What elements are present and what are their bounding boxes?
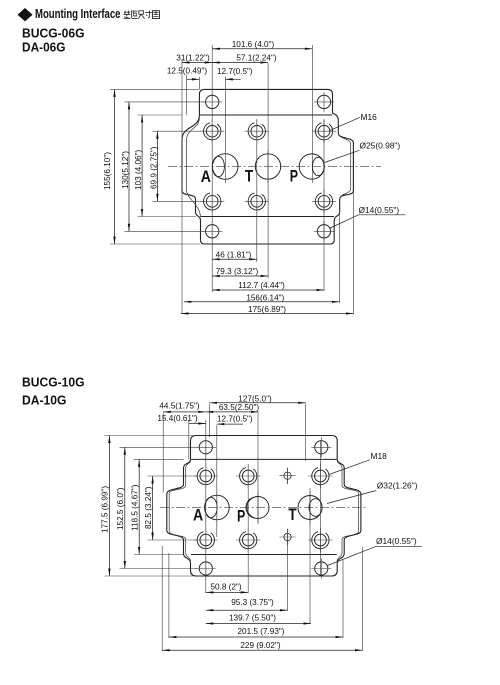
dim2 12.7 line xyxy=(217,423,243,425)
plate2 body bottom edge xyxy=(191,554,337,556)
plate1 port letter T xyxy=(245,167,254,186)
plate2 pilot cross top xyxy=(279,468,295,484)
dim1 ext y89.4 xyxy=(110,88,199,90)
plate1 bolt hole bottom-right xyxy=(314,221,334,241)
dim1 31 text xyxy=(176,54,210,63)
plate1 M16 hole row4 left xyxy=(200,189,224,213)
dim2 127 line xyxy=(210,402,306,404)
plate1 port P circle xyxy=(299,151,324,184)
plate1 bolt hole bottom-left xyxy=(202,221,222,241)
plate1 port T circle xyxy=(255,151,280,184)
dim2 201.5 line xyxy=(169,636,343,638)
plate2 bolt hole bottom-left xyxy=(196,558,216,578)
plate2 port letter A xyxy=(193,506,203,525)
dim1 103 text xyxy=(134,149,143,190)
dim1 101.6 line xyxy=(212,48,312,50)
dim1 112.7 text xyxy=(238,281,285,290)
dim2 44.5 text xyxy=(159,401,200,410)
callout2 O32 text xyxy=(377,481,418,491)
plate1 port A circle xyxy=(212,151,238,184)
dim2 118.5 line xyxy=(138,459,140,554)
dim1 ext y244 xyxy=(110,243,201,245)
dim2 ext y435.5 xyxy=(105,435,194,437)
dim1 175 line xyxy=(181,312,353,314)
dim1 175 text xyxy=(248,305,286,314)
dim2 152.5 text xyxy=(116,487,125,530)
svg-text:155(6.10"): 155(6.10") xyxy=(103,152,112,190)
plate2 bolt hole bottom-right xyxy=(311,558,331,578)
svg-text:156(6.14"): 156(6.14") xyxy=(246,293,284,302)
dim1 103 line xyxy=(141,115,143,217)
dim2 152.5 line xyxy=(124,447,126,568)
plate1 horizontal centerline xyxy=(168,166,381,168)
callout1 M16 text xyxy=(361,112,378,122)
dim1 ext y131.2 xyxy=(153,130,203,132)
plate1 M16 hole row2 right xyxy=(312,119,336,143)
plate2 extension x168.9 xyxy=(168,553,170,638)
dim2 229 line xyxy=(162,649,362,651)
callout1 O25 text xyxy=(360,141,401,151)
plate2 extension x162.2 xyxy=(161,546,163,651)
svg-text:175(6.89"): 175(6.89") xyxy=(248,305,286,314)
dim1 156 text xyxy=(246,293,284,302)
dim2 95.3 line xyxy=(206,609,288,611)
dim1 12.5 line xyxy=(187,78,200,80)
dim2 15.4 line xyxy=(189,422,206,424)
label BUCG-06G xyxy=(22,26,85,41)
dim1 12.5 text xyxy=(167,67,208,76)
svg-text:44.5(1.75"): 44.5(1.75") xyxy=(159,401,200,410)
plate1 top tab outline xyxy=(199,89,332,115)
plate2 top tab outline xyxy=(191,436,338,460)
dim1 12.7 line xyxy=(225,78,240,80)
dim2 177.5 line xyxy=(108,436,110,577)
svg-text:A: A xyxy=(201,167,211,186)
callout1 O25 leader xyxy=(325,150,360,162)
callout2 M18 text xyxy=(371,451,388,461)
svg-text:T: T xyxy=(245,167,254,186)
svg-text:BUCG-10G: BUCG-10G xyxy=(22,375,85,390)
plate1 M16 hole row2 mid xyxy=(245,119,269,143)
plate1 column line port A xyxy=(224,77,226,151)
plate2 M18 hole row2 right xyxy=(308,464,332,488)
dim2 139.7 line xyxy=(206,622,311,624)
svg-text:152.5 (6.0"): 152.5 (6.0") xyxy=(116,487,125,530)
plate1 left chamfer lines xyxy=(187,117,201,217)
plate2 M18 hole row2 mid xyxy=(236,464,260,488)
plate2 horizontal centerline xyxy=(160,506,368,508)
dim1 112.7 line xyxy=(212,289,324,291)
plate2 column line port A xyxy=(216,425,218,537)
dim2 139.7 text xyxy=(229,614,276,623)
svg-text:31(1.22"): 31(1.22") xyxy=(176,54,210,63)
callout1 O14 text xyxy=(359,205,400,215)
dim1 155 line xyxy=(113,89,115,244)
svg-text:82.5 (3.24"): 82.5 (3.24") xyxy=(144,486,153,529)
header title Mounting Interface xyxy=(35,6,121,21)
dim2 118.5 text xyxy=(131,484,140,531)
svg-text:103 (4.06"): 103 (4.06") xyxy=(134,149,143,190)
dim1 79.3 text xyxy=(216,267,259,276)
dim2 50.8 line xyxy=(206,591,248,593)
svg-text:P: P xyxy=(290,167,298,186)
svg-text:130(5.12"): 130(5.12") xyxy=(121,151,130,189)
svg-text:118.5 (4.67"): 118.5 (4.67") xyxy=(131,484,140,531)
svg-text:12.7(0.5"): 12.7(0.5") xyxy=(217,67,253,76)
plate2 extension x209.5 xyxy=(209,404,211,438)
dim1 ext y216.5 xyxy=(138,216,197,218)
label BUCG-10G xyxy=(22,375,85,390)
svg-text:201.5 (7.93"): 201.5 (7.93") xyxy=(237,627,284,636)
svg-text:BUCG-06G: BUCG-06G xyxy=(22,26,85,41)
plate2 column line left bolts xyxy=(205,420,207,593)
plate2 bolt hole top-left xyxy=(196,437,216,457)
svg-text:12.7(0.5"): 12.7(0.5") xyxy=(217,414,253,423)
dim2 ext y459.4 xyxy=(134,458,184,460)
dim2 15.4 text xyxy=(157,414,198,423)
plate1 extension line x186.5 xyxy=(186,75,188,116)
dim1 69.9 line xyxy=(156,131,158,201)
svg-text:Ø32(1.26"): Ø32(1.26") xyxy=(377,481,418,491)
plate2 M18 hole row4 left xyxy=(194,528,218,552)
dim1 130 text xyxy=(121,151,130,189)
callout2 O14 underline xyxy=(376,545,422,547)
svg-text:101.6 (4.0"): 101.6 (4.0") xyxy=(232,40,275,49)
dim2 ext y540 xyxy=(148,539,197,541)
plate2 extension x163.2 xyxy=(162,413,164,493)
plate2 M18 hole row2 left xyxy=(194,464,218,488)
plate2 column line right bolts xyxy=(319,440,321,575)
dim2 177.5 text xyxy=(100,486,109,533)
plate1 column line right bolts xyxy=(323,120,325,291)
plate2 extension x305.7 xyxy=(305,404,307,462)
callout2 M18 leader xyxy=(329,460,370,475)
plate2 column line pilot xyxy=(287,468,289,611)
svg-text:46 (1.81"): 46 (1.81") xyxy=(216,250,252,259)
plate1 body bottom edge xyxy=(201,216,334,218)
dim1 101.6 text xyxy=(232,40,275,49)
svg-text:95.3 (3.75"): 95.3 (3.75") xyxy=(231,598,274,607)
svg-text:Mounting Interface: Mounting Interface xyxy=(35,6,121,21)
dim2 12.7 text xyxy=(217,414,253,423)
dim1 ext y201.3 xyxy=(153,200,203,202)
svg-text:Ø14(0.55"): Ø14(0.55") xyxy=(359,205,400,215)
plate2 right chamfer lines xyxy=(337,461,358,562)
dim2 229 text xyxy=(240,641,281,650)
dim2 ext y554.5 xyxy=(134,554,184,556)
svg-text:57.1(2.24"): 57.1(2.24") xyxy=(236,54,277,63)
svg-text:15.4(0.61"): 15.4(0.61") xyxy=(157,414,198,423)
plate1 M16 hole row2 left xyxy=(200,119,224,143)
dim1 79.3 line xyxy=(212,275,268,277)
dim2 44.5/63.5 chain line xyxy=(163,411,258,413)
plate2 pilot cross bottom xyxy=(279,529,295,545)
plate1 M16 hole row4 mid xyxy=(245,189,269,213)
dim1 46 text xyxy=(216,250,252,259)
svg-text:229 (9.02"): 229 (9.02") xyxy=(240,641,281,650)
plate1 bolt hole top-right xyxy=(314,92,334,112)
dim1 46 line xyxy=(212,258,257,260)
callout2 O14 text xyxy=(376,536,417,546)
plate1 port letter A xyxy=(201,167,211,186)
plate2 left chamfer lines xyxy=(169,461,190,562)
plate1 body outline xyxy=(182,113,353,244)
plate1 column line port T xyxy=(267,63,269,278)
callout1 O14 underline xyxy=(359,214,406,216)
plate2 port P circle xyxy=(246,493,269,523)
plate2 bolt hole top-right xyxy=(311,437,331,457)
dim2 ext y576 xyxy=(105,575,194,577)
callout1 O14 leader xyxy=(329,215,359,229)
dim2 201.5 text xyxy=(237,627,284,636)
dim1 ext y231.3 xyxy=(125,230,205,232)
dim1 ext y102 xyxy=(125,101,205,103)
dim1 69.9 text xyxy=(150,146,159,189)
svg-text:P: P xyxy=(237,507,245,526)
plate1 right chamfer lines xyxy=(338,133,350,200)
callout2 O32 leader xyxy=(327,491,376,504)
svg-text:79.3 (3.12"): 79.3 (3.12") xyxy=(216,267,259,276)
plate2 extension x188.8 xyxy=(188,420,190,459)
svg-text:112.7 (4.44"): 112.7 (4.44") xyxy=(238,281,285,290)
label DA-06G xyxy=(22,40,66,55)
plate2 column line mid bolts xyxy=(247,466,249,593)
svg-text:Ø25(0.98"): Ø25(0.98") xyxy=(360,141,401,151)
dim2 127 text xyxy=(238,394,272,403)
header CJK caption xyxy=(124,11,160,19)
plate1 extension line x182 xyxy=(181,59,183,314)
plate2 body outline xyxy=(167,459,361,576)
plate1 body top edge xyxy=(200,114,332,116)
svg-text:139.7 (5.50"): 139.7 (5.50") xyxy=(229,614,276,623)
dim2 95.3 text xyxy=(231,598,274,607)
plate2 column line port P xyxy=(257,413,259,525)
dim1 156 line xyxy=(184,301,340,303)
dim2 63.5 text xyxy=(219,403,260,412)
plate2 body top edge xyxy=(191,458,337,460)
plate1 column line port P xyxy=(311,45,313,151)
plate2 port letter P xyxy=(237,507,245,526)
svg-text:DA-06G: DA-06G xyxy=(22,40,66,55)
svg-text:DA-10G: DA-10G xyxy=(22,393,67,408)
svg-text:69.9 (2.75"): 69.9 (2.75") xyxy=(150,146,159,189)
plate1 column line left bolts xyxy=(211,45,213,292)
svg-text:T: T xyxy=(288,505,297,524)
plate2 M18 hole row4 mid xyxy=(236,528,260,552)
plate2 extension x362.5 xyxy=(362,547,364,651)
plate1 M16 hole row4 right xyxy=(312,189,336,213)
dim2 ext y568.5 xyxy=(120,568,198,570)
dim1 57.1 text xyxy=(236,54,277,63)
svg-text:12.5(0.49"): 12.5(0.49") xyxy=(167,67,208,76)
dim1 155 text xyxy=(103,152,112,190)
svg-text:50.8 (2"): 50.8 (2") xyxy=(210,583,241,592)
svg-text:Ø14(0.55"): Ø14(0.55") xyxy=(376,536,417,546)
callout1 M16 leader xyxy=(330,117,360,130)
dim1 130 line xyxy=(128,102,130,231)
plate2 port T circle xyxy=(298,492,322,524)
plate1 bolt hole top-left xyxy=(202,92,222,112)
plate2 port A circle xyxy=(205,492,230,524)
svg-text:M16: M16 xyxy=(361,112,378,122)
svg-text:M18: M18 xyxy=(371,451,388,461)
svg-text:177.5 (6.99"): 177.5 (6.99") xyxy=(100,486,109,533)
plate1 extension line x353.4 xyxy=(352,192,354,315)
dim2 ext y447.3 xyxy=(120,446,198,448)
plate2 extension x343 xyxy=(342,560,344,638)
dim1 31/57.1 chain line xyxy=(182,61,268,63)
plate1 extension line x199.4 xyxy=(198,77,200,89)
plate2 port letter T xyxy=(288,505,297,524)
label DA-10G xyxy=(22,393,67,408)
callout2 O14 leader xyxy=(328,546,377,565)
dim2 ext y476 xyxy=(148,475,197,477)
dim2 82.5 text xyxy=(144,486,153,529)
dim2 82.5 line xyxy=(151,476,153,540)
dim2 50.8 text xyxy=(210,583,241,592)
header diamond bullet xyxy=(18,8,33,21)
dim1 12.7 text xyxy=(217,67,253,76)
dim1 ext y115 xyxy=(138,114,183,116)
plate1 extension line x339.5 xyxy=(339,213,341,303)
svg-text:63.5(2.50"): 63.5(2.50") xyxy=(219,403,260,412)
plate2 column line port T xyxy=(309,488,311,624)
plate1 port letter P xyxy=(290,167,298,186)
plate2 M18 hole row4 right xyxy=(308,528,332,552)
svg-text:A: A xyxy=(193,506,203,525)
plate1 column line mid bolts xyxy=(256,120,258,262)
